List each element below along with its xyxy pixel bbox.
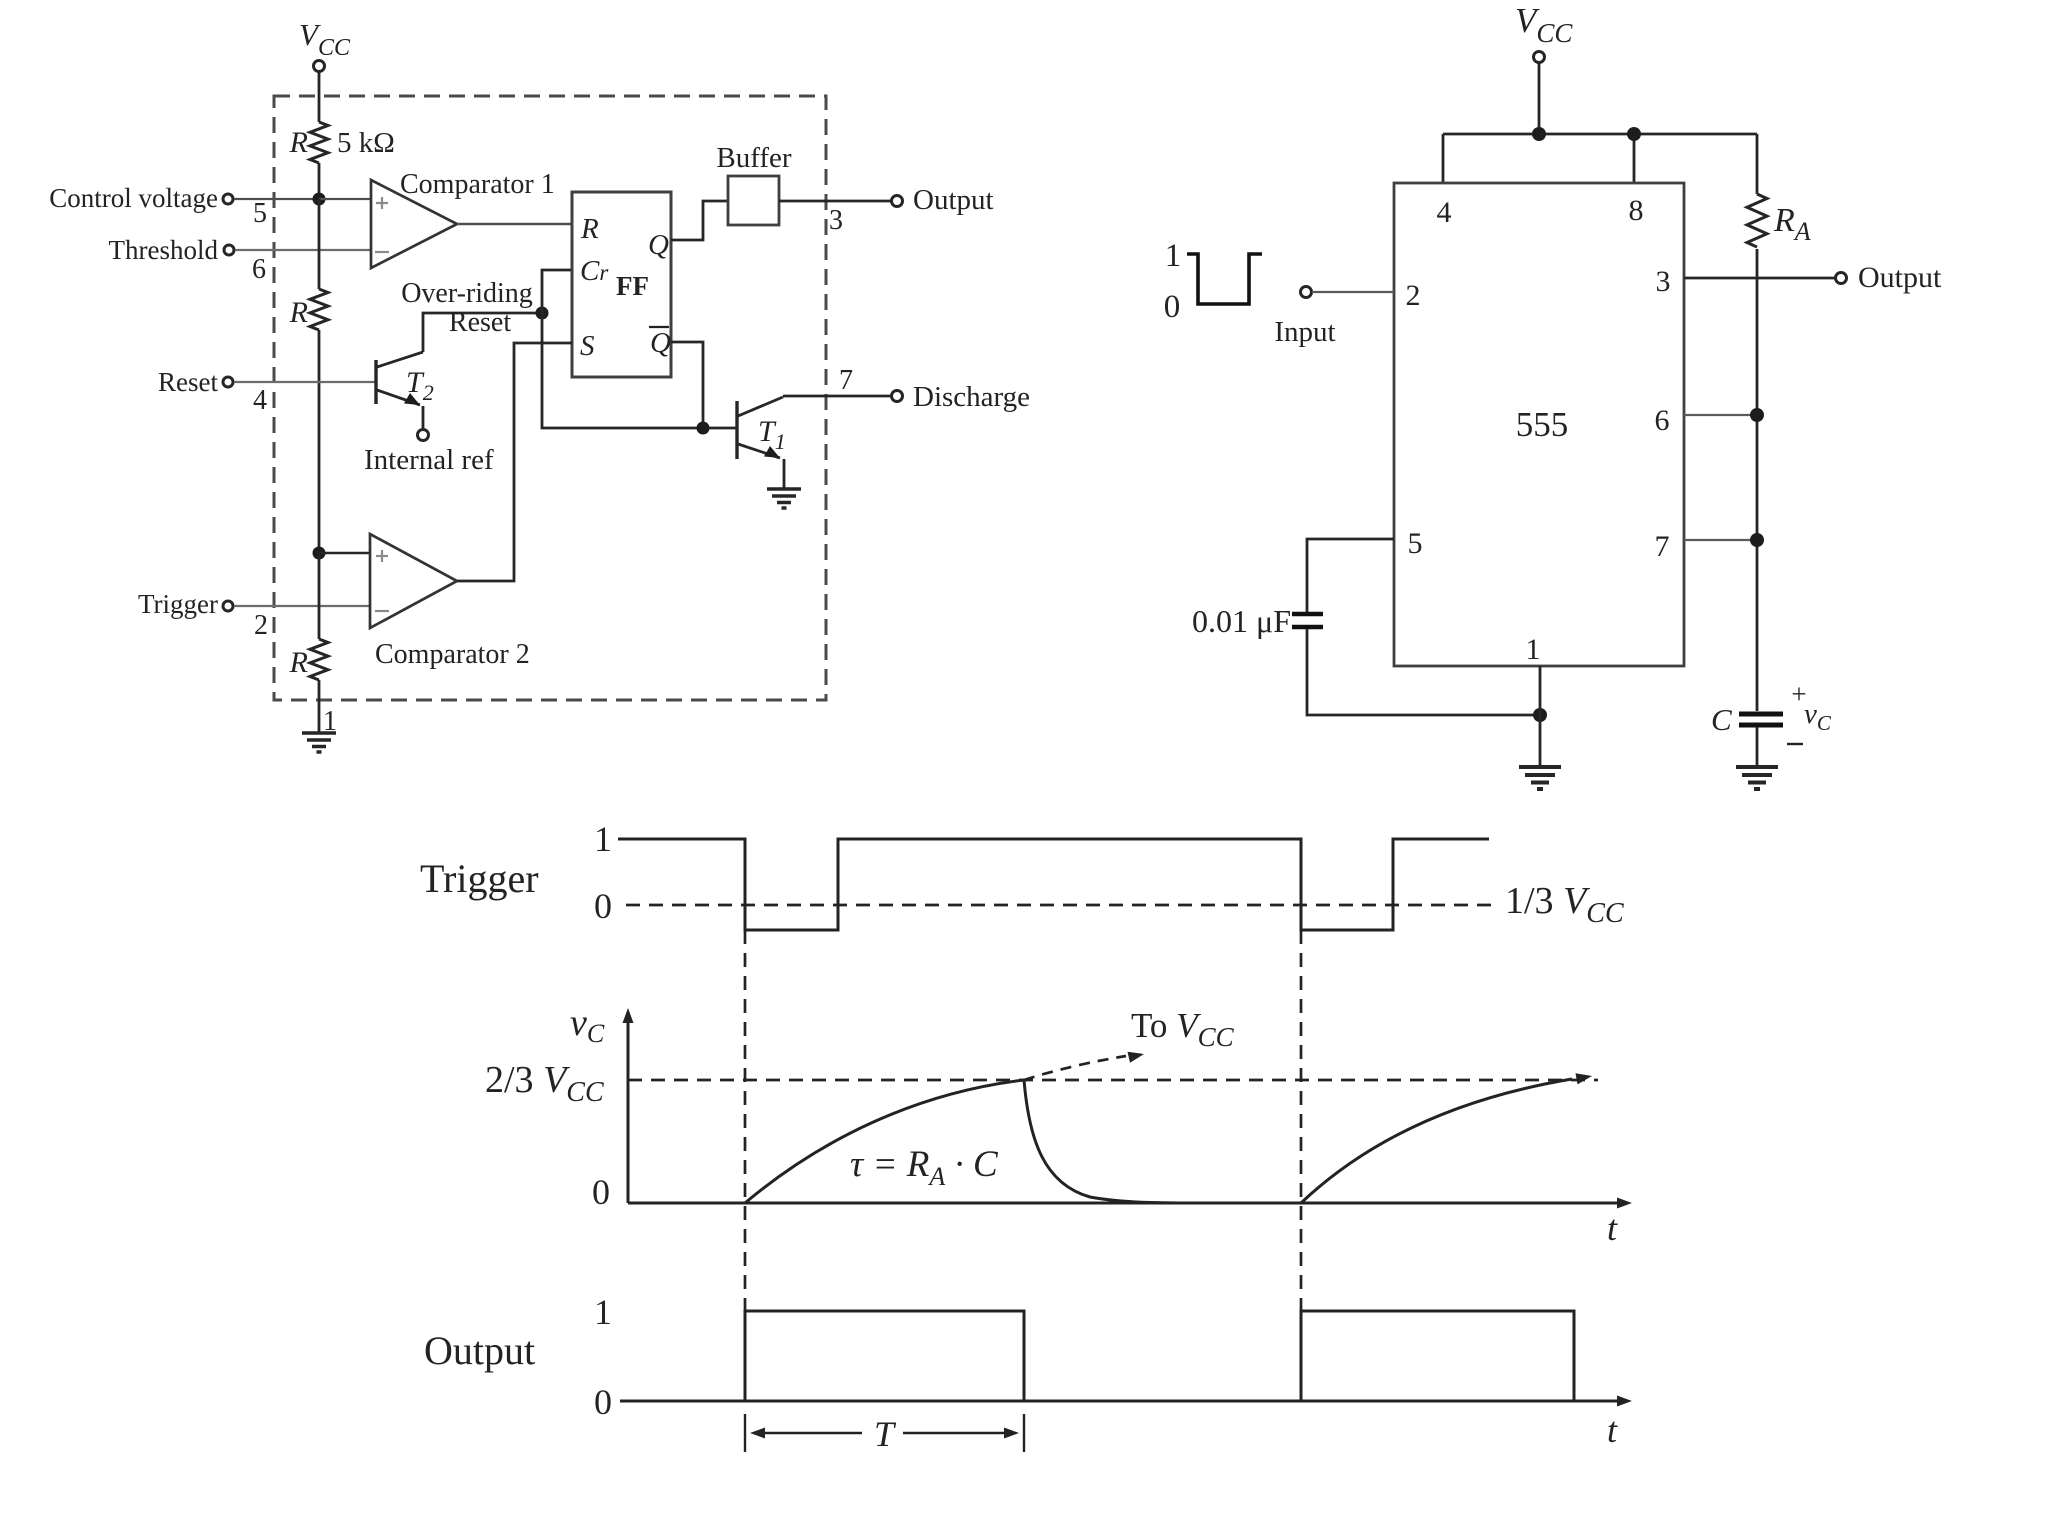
svg-text:T: T	[874, 1414, 897, 1454]
wire FF Qbar to T1 base junction	[671, 342, 703, 428]
output pulse 1	[745, 1311, 1024, 1401]
wire R3 to ground (pin 1)	[318, 680, 321, 732]
node T1 base junction	[697, 422, 710, 435]
terminal Reset (pin 4)	[158, 367, 375, 416]
svg-text:Trigger: Trigger	[420, 856, 539, 901]
node A junction (2/3 Vcc node)	[313, 193, 326, 206]
svg-text:Cr: Cr	[580, 255, 609, 287]
wire node A to comparator 1 + input	[319, 198, 372, 200]
output pulse 2	[1301, 1311, 1574, 1401]
resistor R3	[289, 639, 328, 680]
op-amp comparator 1	[371, 169, 555, 268]
svg-text:S: S	[580, 330, 595, 362]
supply rail wire	[1443, 133, 1757, 136]
wire T2 emitter to internal ref terminal	[422, 406, 425, 429]
dashed IC boundary box	[274, 96, 826, 700]
svg-text:Q: Q	[650, 327, 671, 359]
svg-text:0.01 μF: 0.01 μF	[1192, 603, 1291, 639]
ground (below C)	[1736, 767, 1778, 789]
wire pin 7 to RA line	[1684, 539, 1757, 541]
svg-text:8: 8	[1629, 194, 1644, 227]
junction pin 7 / RA line	[1750, 533, 1764, 547]
svg-text:R: R	[289, 646, 308, 679]
terminal Input (pin 2)	[1274, 287, 1394, 349]
svg-text:Output: Output	[913, 184, 994, 216]
vC vertical axis	[570, 1002, 634, 1203]
svg-text:Threshold: Threshold	[109, 235, 219, 265]
svg-text:6: 6	[252, 254, 266, 285]
svg-text:2: 2	[1406, 279, 1421, 312]
wire T1 emitter to ground	[783, 459, 786, 488]
resistor R2	[289, 289, 328, 330]
vC discharge curve	[1024, 1080, 1245, 1203]
terminal Threshold (pin 6)	[109, 235, 372, 285]
svg-text:5 kΩ: 5 kΩ	[337, 127, 395, 159]
wire pin 6 to RA line	[1684, 414, 1757, 416]
power terminal Vcc (monostable circuit)	[1515, 1, 1573, 63]
svg-text:1: 1	[1165, 238, 1182, 274]
wire rail to resistor RA	[1756, 134, 1759, 194]
wire node down to T1 base rail	[542, 313, 737, 428]
power terminal Vcc (left diagram)	[299, 17, 351, 72]
svg-text:Input: Input	[1274, 316, 1335, 348]
wire T2 collector to over-riding reset node	[423, 313, 542, 352]
resistor R1 (5 kOhm)	[289, 122, 395, 163]
svg-text:4: 4	[1437, 196, 1452, 229]
wire node B to comparator 2 + input	[319, 552, 371, 554]
dashed timing line t1	[1300, 930, 1303, 1311]
wire R1 to node A	[318, 163, 321, 199]
svg-text:5: 5	[253, 198, 267, 229]
svg-text:Comparator 1: Comparator 1	[400, 169, 555, 200]
svg-text:0: 0	[1164, 289, 1181, 325]
wire resistor R2 upper segment	[318, 199, 321, 289]
svg-text:Over-riding: Over-riding	[401, 278, 533, 309]
svg-text:t: t	[1607, 1208, 1618, 1248]
svg-text:t: t	[1607, 1410, 1618, 1450]
svg-text:R: R	[289, 126, 308, 159]
wire node B to resistor R3	[318, 553, 321, 639]
op-amp comparator 2	[370, 534, 530, 670]
svg-text:Q: Q	[648, 229, 669, 261]
transistor T2	[376, 352, 434, 405]
vC charging curve 2	[1301, 1073, 1592, 1203]
wire rail to pin 8	[1633, 134, 1636, 183]
capacitor 0.01 uF (bypass)	[1192, 603, 1323, 639]
svg-text:Reset: Reset	[449, 307, 511, 338]
svg-text:7: 7	[1655, 530, 1670, 563]
wire capacitor C to ground	[1756, 727, 1759, 766]
wire Vcc to supply rail	[1538, 63, 1541, 134]
vC time axis	[592, 1172, 1632, 1248]
junction rail / Vcc	[1532, 127, 1546, 141]
svg-text:1: 1	[594, 819, 612, 859]
svg-text:0: 0	[594, 886, 612, 926]
svg-text:Reset: Reset	[158, 367, 218, 397]
terminal Output (monostable circuit)	[1836, 261, 1943, 294]
trigger waveform trace	[618, 839, 1489, 930]
input pulse symbol	[1164, 238, 1262, 325]
svg-text:0: 0	[592, 1172, 610, 1212]
pulse width T annotation	[745, 1414, 1024, 1454]
wire RA down to capacitor C	[1756, 249, 1759, 711]
vC charging curve 1	[745, 1080, 1024, 1203]
label Over-riding Reset	[401, 278, 533, 338]
resistor RA	[1747, 194, 1811, 247]
terminal Output (left diagram)	[892, 184, 994, 216]
wire Vcc terminal to resistor R1	[318, 72, 321, 122]
junction pin 1 / bypass return	[1533, 708, 1547, 722]
svg-text:Output: Output	[1858, 261, 1942, 294]
wire node to FF Cr input	[542, 270, 572, 313]
dashed To Vcc continuation curve	[1024, 1006, 1235, 1080]
svg-text:3: 3	[1656, 265, 1671, 298]
svg-text:Control voltage: Control voltage	[49, 183, 218, 213]
svg-text:4: 4	[253, 385, 267, 416]
svg-text:R: R	[289, 296, 308, 329]
transistor T1	[737, 397, 786, 459]
svg-text:Internal ref: Internal ref	[364, 444, 494, 476]
junction pin 6 / RA line	[1750, 408, 1764, 422]
node over-riding reset junction	[536, 307, 549, 320]
dashed timing line t0	[744, 930, 747, 1311]
svg-text:C: C	[1711, 702, 1732, 737]
IC 555 box	[1394, 183, 1684, 666]
svg-text:R: R	[580, 213, 599, 245]
wire FF Q output to buffer	[671, 201, 728, 240]
ground (T1 emitter)	[767, 489, 801, 508]
dashed 2/3 Vcc reference line	[628, 1079, 1598, 1082]
svg-text:Comparator 2: Comparator 2	[375, 639, 530, 670]
wire comparator 2 output to FF S input	[457, 343, 572, 581]
svg-text:2: 2	[254, 610, 268, 641]
junction rail / pin 8	[1627, 127, 1641, 141]
capacitor C	[1711, 679, 1832, 744]
svg-text:1: 1	[1526, 633, 1541, 666]
svg-text:FF: FF	[616, 271, 649, 301]
svg-text:6: 6	[1655, 404, 1670, 437]
wire rail to pin 4	[1442, 134, 1445, 183]
output time axis	[620, 1396, 1632, 1451]
wire bypass capacitor to pin 1 node	[1307, 629, 1540, 715]
buffer stage box	[716, 142, 792, 225]
svg-text:0: 0	[594, 1382, 612, 1422]
svg-text:Output: Output	[424, 1328, 535, 1373]
node B junction (1/3 Vcc node)	[313, 547, 326, 560]
svg-text:Discharge: Discharge	[913, 381, 1030, 413]
wire comparator 1 output to FF R input	[457, 223, 572, 225]
terminal Control voltage (pin 5)	[49, 183, 319, 229]
dashed 1/3 Vcc reference line	[626, 904, 1495, 907]
flip-flop FF box	[572, 192, 671, 377]
svg-text:Trigger: Trigger	[138, 589, 218, 619]
wire pin 1 to ground	[1539, 666, 1542, 766]
ground (pin 1, left diagram)	[302, 733, 336, 752]
terminal Discharge	[892, 381, 1031, 413]
svg-text:555: 555	[1516, 405, 1569, 444]
svg-text:Buffer: Buffer	[716, 142, 792, 174]
wire pin 3 to Output terminal	[1684, 277, 1836, 280]
svg-text:1: 1	[594, 1292, 612, 1332]
wire buffer to output terminal (pin 3)	[779, 200, 892, 203]
terminal Trigger (pin 2)	[138, 589, 371, 641]
wire T1 collector to Discharge terminal (pin 7)	[783, 395, 892, 398]
svg-text:3: 3	[829, 205, 843, 236]
wire R2 to node B	[318, 330, 321, 553]
ground (pin 1, monostable)	[1519, 767, 1561, 789]
svg-text:7: 7	[839, 365, 853, 396]
svg-text:τ = RA · C: τ = RA · C	[850, 1144, 999, 1191]
svg-text:5: 5	[1408, 527, 1423, 560]
wire pin 5 to bypass capacitor	[1307, 539, 1394, 612]
terminal Internal ref	[364, 430, 494, 477]
